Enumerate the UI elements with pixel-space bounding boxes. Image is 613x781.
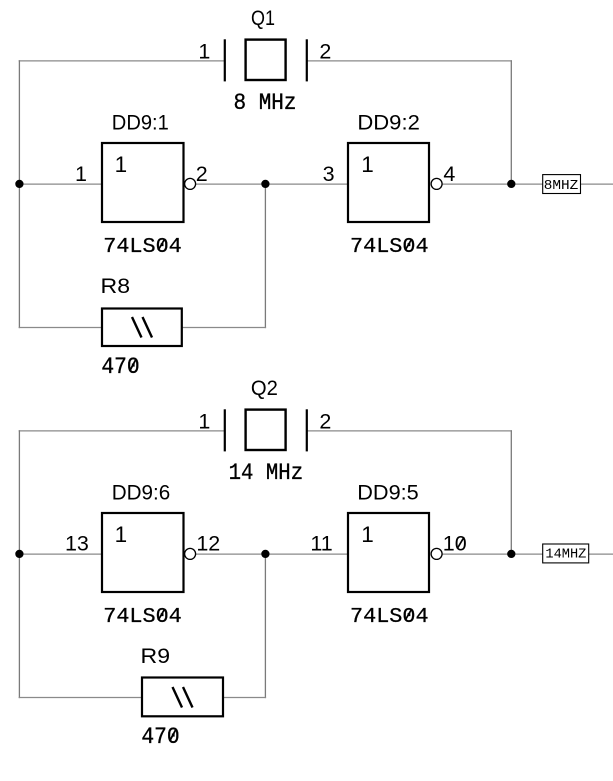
svg-text:DD9:6: DD9:6 <box>112 481 171 505</box>
svg-text:74LS04: 74LS04 <box>350 235 429 259</box>
slashed zero of 470 (R8) <box>130 359 136 371</box>
inverter DD9:2 output bubble <box>431 178 442 189</box>
slashed zero of pin 10 <box>457 537 464 548</box>
inverter DD9:1 output bubble <box>185 178 196 189</box>
resistor R8 slash mark 2 <box>143 317 153 338</box>
slashed zero of 74LS04 (DD9:6) <box>158 609 164 620</box>
wire: crystal row left segment (node C to Q2 pin1) <box>19 430 225 432</box>
crystal Q1 right electrode bar <box>306 39 308 81</box>
wire: right vertical (Q2 pin2 down to output node) <box>510 430 512 554</box>
svg-text:1: 1 <box>361 522 374 547</box>
slashed zero of 74LS04 (DD9:5) <box>405 609 411 620</box>
inverter DD9:6 output bubble <box>185 548 196 559</box>
crystal Q2 left electrode bar <box>224 409 226 451</box>
svg-text:14MHZ: 14MHZ <box>545 547 586 563</box>
inverter DD9:6 body <box>102 513 184 592</box>
wire: resistor row right (R8 to node B vertical) <box>182 327 266 329</box>
resistor R9 slash mark 1 <box>173 687 183 708</box>
inverter DD9:5 output bubble <box>431 548 442 559</box>
op-amp/inverter DD9:1 body <box>102 143 184 222</box>
svg-text:1: 1 <box>361 152 374 177</box>
slashed zero of 74LS04 (DD9:2) <box>405 239 411 250</box>
junction: output node 14MHZ <box>507 550 515 558</box>
wire: right vertical (Q1 pin2 down to output node) <box>510 60 512 184</box>
wire: DD9:6 output to DD9:5 input (node D) <box>196 553 349 555</box>
svg-text:11: 11 <box>310 531 332 555</box>
svg-text:470: 470 <box>141 724 179 750</box>
wire: DD9:5 output to right edge (14MHZ net) <box>442 553 613 555</box>
resistor R8 body <box>102 309 182 347</box>
wire: node C to DD9:6 input <box>19 553 102 555</box>
svg-text:13: 13 <box>65 531 89 555</box>
svg-text:1: 1 <box>115 152 128 177</box>
net flag 8MHZ box <box>543 175 581 194</box>
junction: node D between DD9:6 and DD9:5 <box>261 550 269 558</box>
svg-text:2: 2 <box>319 40 331 64</box>
resistor R9 body <box>142 678 223 717</box>
wire: node D vertical down to R9 <box>264 554 266 698</box>
svg-text:4: 4 <box>443 162 455 186</box>
svg-text:74LS04: 74LS04 <box>103 235 182 259</box>
svg-text:DD9:2: DD9:2 <box>357 111 420 135</box>
svg-text:1: 1 <box>198 40 210 64</box>
wire: resistor row left (node A to R8) <box>19 327 102 329</box>
crystal Q2 right electrode bar <box>306 409 308 451</box>
wire: node A to DD9:1 input <box>19 183 102 185</box>
svg-text:8MHZ: 8MHZ <box>544 178 579 194</box>
resistor R8 slash mark 1 <box>132 317 142 338</box>
wire: DD9:2 output to right edge (8MHZ net) <box>442 183 613 185</box>
resistor R9 slash mark 2 <box>183 687 193 708</box>
inverter DD9:2 body <box>348 143 429 222</box>
svg-text:2: 2 <box>319 410 331 434</box>
junction: node A at DD9:1 input <box>15 180 23 188</box>
svg-text:10: 10 <box>443 531 467 555</box>
svg-text:470: 470 <box>101 354 139 380</box>
svg-text:2: 2 <box>196 162 208 186</box>
wire: crystal row left segment (node A to Q1 pin1) <box>19 60 225 62</box>
junction: output node 8MHZ <box>507 180 515 188</box>
crystal Q1 left electrode bar <box>224 39 226 81</box>
wire: node B vertical down to R8 <box>264 184 266 328</box>
wire: resistor row right (R9 to node D vertical) <box>223 697 266 699</box>
svg-text:R9: R9 <box>141 644 171 668</box>
wire: left vertical (node A: crystal row down to resistor row) <box>18 60 20 328</box>
svg-text:12: 12 <box>196 531 220 555</box>
svg-text:1: 1 <box>115 522 128 547</box>
svg-text:Q1: Q1 <box>251 6 275 30</box>
wire: left vertical (node C: crystal row down to resistor row) <box>18 430 20 698</box>
svg-text:1: 1 <box>75 162 87 186</box>
svg-text:Q2: Q2 <box>251 376 278 400</box>
net flag 14MHZ box <box>543 544 589 563</box>
svg-text:R8: R8 <box>101 274 131 298</box>
inverter DD9:5 body <box>348 513 429 592</box>
svg-text:1: 1 <box>198 410 210 434</box>
crystal Q2 body <box>246 410 286 450</box>
wire: crystal row right segment (Q2 pin2 to right vertical) <box>307 430 512 432</box>
svg-text:DD9:1: DD9:1 <box>112 111 169 135</box>
wire: resistor row left (node C to R9) <box>19 697 142 699</box>
svg-text:14 MHz: 14 MHz <box>229 460 304 486</box>
svg-text:8 MHz: 8 MHz <box>234 90 297 116</box>
svg-text:3: 3 <box>323 162 335 186</box>
wire: crystal row right segment (Q1 pin2 to right vertical) <box>307 60 512 62</box>
slashed zero of 470 (R9) <box>170 729 176 741</box>
svg-text:74LS04: 74LS04 <box>350 605 429 629</box>
svg-text:DD9:5: DD9:5 <box>357 481 419 505</box>
wire: DD9:1 output to DD9:2 input (node B) <box>196 183 349 185</box>
junction: node C at DD9:6 input <box>15 550 23 558</box>
slashed zero of 74LS04 (DD9:1) <box>158 239 164 250</box>
crystal Q1 body <box>246 40 286 80</box>
svg-text:74LS04: 74LS04 <box>103 605 182 629</box>
junction: node B between DD9:1 and DD9:2 <box>261 180 269 188</box>
